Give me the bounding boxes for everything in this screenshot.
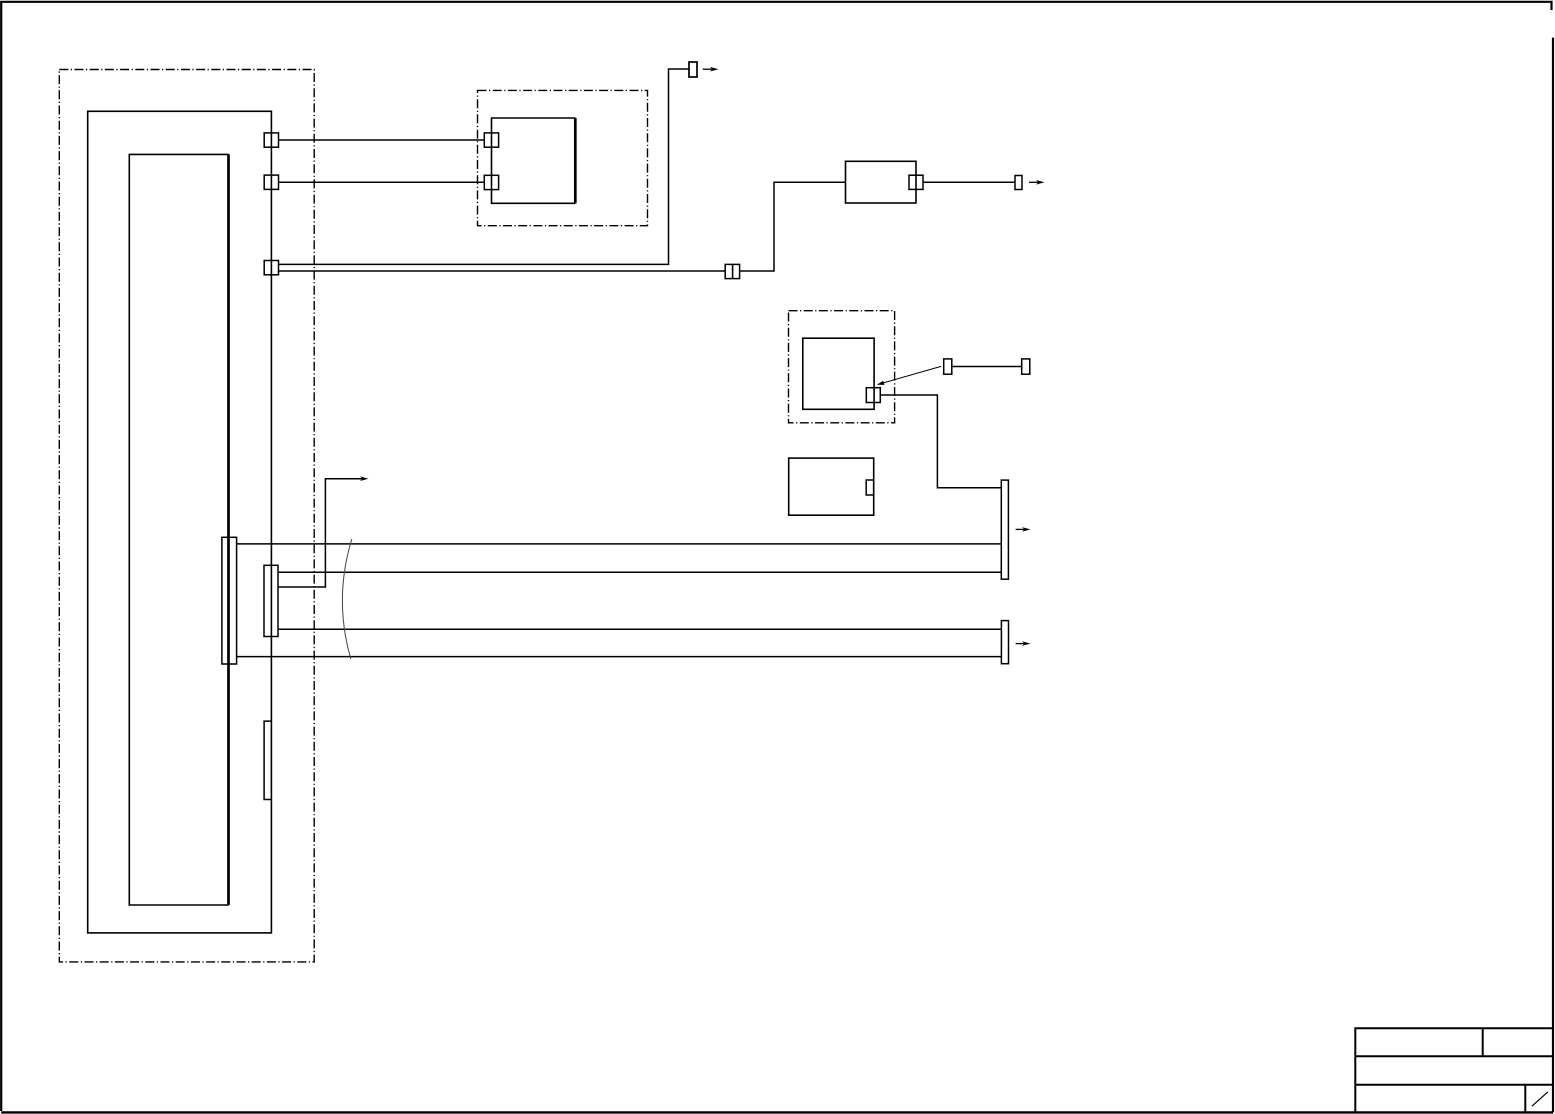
terminal X2 right: [1022, 359, 1030, 374]
off-page arrow at R1: [1016, 528, 1025, 530]
wire L2 stub with arrow: [278, 479, 363, 587]
control unit inner box: [129, 154, 229, 905]
harness dash-dot enclosure around control unit: [59, 70, 314, 962]
connector bar L1: [222, 537, 237, 664]
leader arrow to S1 pin: [882, 366, 942, 383]
component B2 box: [789, 458, 874, 515]
harness arc: [342, 539, 351, 659]
off-page connector terminal (top): [689, 62, 697, 77]
component B1 box: [846, 161, 917, 203]
wire L2 to R2 (3): [278, 628, 1001, 630]
terminal pair X2: [944, 359, 952, 374]
pin 1 of control unit: [264, 133, 278, 147]
terminal after B1: [1015, 176, 1022, 190]
wire S1 pin to bar R1: [880, 395, 1001, 488]
wire L1 to R2 (4): [237, 656, 1002, 658]
connector bar R2: [1001, 621, 1008, 664]
off-page arrow after B1: [1029, 181, 1039, 183]
wire pin2 to component M1: [279, 181, 485, 183]
wire pin3 lower to inline connector X1: [279, 270, 726, 272]
pin of S1: [866, 388, 880, 403]
sensor S1 box: [803, 338, 874, 409]
dash-dot enclosure of component M1: [478, 90, 648, 225]
wire L2 to R1 (2): [278, 571, 1001, 573]
wire X2: [952, 366, 1022, 368]
control unit outer box: [88, 111, 272, 933]
component M1 box: [492, 118, 576, 203]
inline connector X1: [725, 264, 739, 278]
pin 1 of M1: [484, 133, 498, 147]
off-page arrow (top): [703, 68, 713, 70]
wire L1 to R1 (1): [237, 543, 1002, 545]
wire X1 to component B1: [740, 182, 845, 271]
dash-dot enclosure of sensor S1: [789, 311, 895, 423]
tab of B2: [866, 480, 874, 495]
pin 2 of M1: [484, 175, 498, 189]
wire pin1 to component M1: [279, 139, 485, 141]
off-page arrow at R2: [1016, 643, 1025, 645]
pin 2 of control unit: [264, 175, 278, 189]
connector bar L2: [264, 565, 278, 636]
connector tab L3: [264, 721, 271, 799]
pin of B1: [909, 175, 923, 189]
connector bar R1: [1001, 480, 1008, 579]
pin 3 of control unit: [264, 261, 278, 275]
wire pin3 upper to off-page connector: [279, 69, 690, 264]
wire B1 to terminal: [923, 181, 1015, 183]
